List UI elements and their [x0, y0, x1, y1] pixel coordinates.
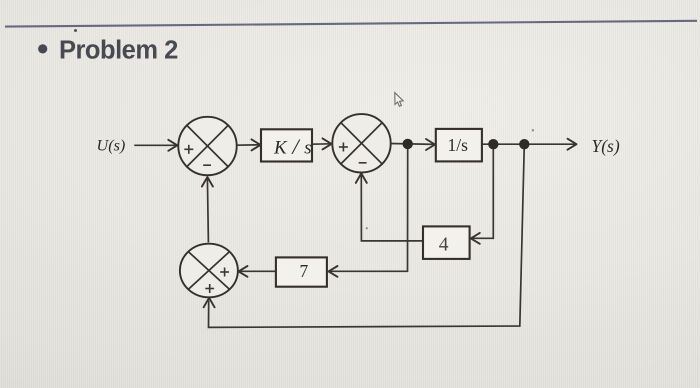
svg-text:4: 4 [439, 235, 449, 256]
svg-text:7: 7 [300, 261, 309, 281]
svg-text:U(s): U(s) [97, 137, 126, 155]
svg-text:K / s: K / s [273, 134, 312, 159]
svg-text:Y(s): Y(s) [592, 136, 620, 156]
svg-text:Problem 2: Problem 2 [59, 37, 178, 65]
svg-text:1/s: 1/s [448, 135, 469, 155]
